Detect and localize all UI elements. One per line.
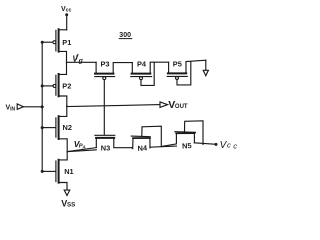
svg-text:VIN: VIN [6,105,16,113]
wire Vcc dot to P1 source [66,15,68,30]
transistor P5 [167,60,206,85]
junction dot P1 gate [41,41,44,44]
svg-text:c: c [227,141,231,150]
svg-text:P4: P4 [137,59,147,68]
transistor N4 (diode-connected, hand-drawn) [131,126,176,148]
svg-text:P5: P5 [173,59,182,68]
transistor N2 [42,105,67,151]
wire VIN to bus [23,106,42,108]
underline of 300 [119,38,132,40]
svg-text:300: 300 [119,32,131,39]
transistor N3 [67,135,131,151]
node VPA wire (N2 source / N1 drain to N3) [67,150,96,152]
svg-text:N2: N2 [63,123,72,132]
transistor N5 (diode-connected, hand-drawn) [161,121,216,147]
transistor P1 [42,29,66,62]
Vcc bottom-right terminal dot [215,143,218,146]
svg-text:P3: P3 [101,60,110,69]
Vcc bottom-right label [220,140,238,151]
svg-text:N4: N4 [137,143,148,153]
transistor P2 [42,62,67,105]
svg-text:N3: N3 [101,144,110,153]
junction dot P2 gate [41,84,44,87]
junction dot VIN [41,105,44,108]
svg-text:VOUT: VOUT [168,99,188,111]
wire P5 drain to top-right terminal [205,60,207,70]
Vcc top terminal dot [65,13,68,16]
Vss terminal arrow [64,190,70,195]
svg-text:P2: P2 [62,82,71,91]
VIN input arrow [17,104,23,110]
svg-text:P1: P1 [62,38,71,47]
transistor P4 [131,62,169,85]
transistor P3 [95,62,133,79]
svg-text:VSS: VSS [61,198,75,208]
output wire to VOUT [67,105,160,107]
input bus (gates of P1,P2,N2,N1) [41,42,43,171]
svg-text:Vcc: Vcc [61,6,72,13]
transistor N1 [42,152,67,190]
junction dot N1 gate [41,170,44,173]
node Vfg wire (P1 drain / P2 source to P3) [67,61,97,63]
top-right terminal arrow [203,70,208,75]
node label Vfg [72,55,82,65]
wire P3 gate to N3 gate (crosses VOUT wire) [103,80,105,135]
svg-text:N5: N5 [182,141,192,151]
VOUT output arrow [160,102,168,108]
junction dot N2 gate [41,126,44,129]
svg-text:A: A [81,144,85,149]
svg-text:N1: N1 [64,167,73,176]
svg-text:g: g [78,57,83,64]
svg-text:c: c [233,142,237,151]
node label VPA [74,139,86,150]
